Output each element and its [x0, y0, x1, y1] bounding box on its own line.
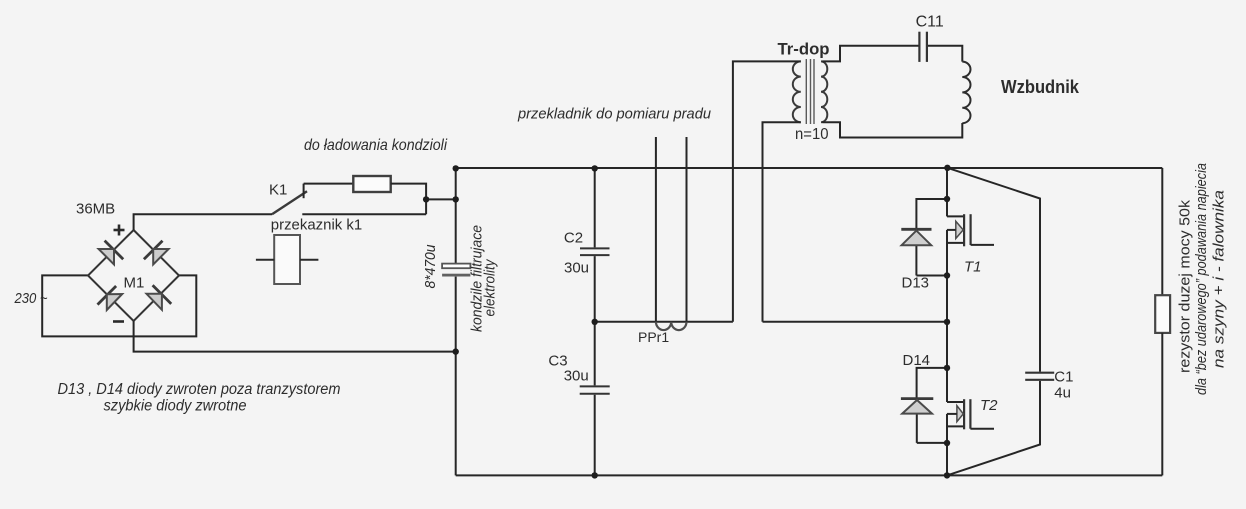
- svg-text:rezystor duzej mocy 50k: rezystor duzej mocy 50k: [1177, 199, 1194, 373]
- diode D14: [901, 368, 947, 443]
- diode D13: [901, 199, 947, 276]
- svg-text:elektrolity: elektrolity: [481, 258, 498, 316]
- current transformer PPr1 sense leads: [656, 137, 687, 322]
- svg-text:C11: C11: [916, 14, 944, 31]
- wire: right rail lower: [1161, 333, 1163, 476]
- transformer Tr-dop core: [806, 59, 814, 124]
- transformer Tr-dop secondary winding: [821, 61, 827, 122]
- wire: bridge minus output to bus: [134, 321, 456, 352]
- wire: C1 branch slant top: [947, 168, 1040, 372]
- inductor Wzbudnik work coil: [962, 62, 970, 124]
- svg-text:230 ~: 230 ~: [14, 290, 48, 307]
- transformer Tr-dop primary winding: [793, 61, 801, 122]
- wire: switch bypass lower path: [302, 213, 426, 215]
- capacitor 8*470u electrolytic: [442, 264, 470, 277]
- wire: 230V AC source leads: [42, 275, 196, 336]
- wire: inverter leg: [946, 168, 948, 476]
- wire: feed to bus: [426, 198, 456, 200]
- wire: resistor top path: [304, 183, 354, 185]
- svg-text:4u: 4u: [1054, 385, 1071, 402]
- transistor T2: [947, 399, 994, 429]
- svg-text:K1: K1: [269, 181, 287, 198]
- wire: bridge plus output to switch K1: [134, 214, 272, 230]
- svg-text:C2: C2: [564, 230, 583, 247]
- svg-text:przekladnik do pomiaru pradu: przekladnik do pomiaru pradu: [517, 106, 712, 123]
- svg-text:36MB: 36MB: [76, 201, 115, 218]
- svg-text:T2: T2: [980, 397, 998, 414]
- relay coil K1: [256, 235, 319, 284]
- svg-text:n=10: n=10: [795, 126, 829, 143]
- wire: C1 branch slant bottom: [947, 381, 1040, 476]
- wire: right rail upper: [1161, 168, 1163, 295]
- switch K1 fixed contact: [303, 184, 305, 199]
- wire: resistor right to bus: [391, 184, 426, 215]
- wire: mid horizontal left segment: [595, 321, 733, 323]
- svg-text:M1: M1: [124, 275, 145, 292]
- svg-text:szybkie diody zwrotne: szybkie diody zwrotne: [104, 398, 247, 415]
- plus sign: [114, 225, 125, 236]
- wire: top rail: [456, 167, 1163, 169]
- bridge rectifier M1 diamond: [88, 230, 179, 321]
- capacitor C3: [580, 386, 610, 393]
- svg-text:30u: 30u: [564, 368, 589, 385]
- wire: primary top lead: [733, 61, 801, 321]
- wire: C11 to coil top: [928, 46, 963, 62]
- svg-text:do ładowania kondzioli: do ładowania kondzioli: [304, 137, 447, 154]
- svg-text:PPr1: PPr1: [638, 329, 669, 345]
- diode M1 top-left: [99, 241, 124, 265]
- svg-text:D14: D14: [903, 352, 931, 369]
- diode M1 bottom-right: [147, 285, 172, 310]
- svg-text:przekaznik k1: przekaznik k1: [271, 217, 362, 234]
- wire: mid horizontal right segment: [763, 321, 948, 323]
- wire: C2 C3 branch vertical: [594, 168, 596, 475]
- node: junction dots: [423, 165, 951, 479]
- wire: primary bottom lead: [763, 122, 801, 322]
- current transformer PPr1 loops: [656, 322, 687, 330]
- svg-text:T1: T1: [964, 259, 982, 276]
- svg-text:Tr-dop: Tr-dop: [778, 40, 830, 59]
- transistor T1: [947, 214, 994, 246]
- svg-text:C1: C1: [1054, 368, 1073, 385]
- capacitor C1: [1025, 373, 1054, 380]
- capacitor C2: [580, 248, 610, 255]
- diode M1 bottom-left: [98, 286, 123, 310]
- svg-text:na szyny + i - falownika: na szyny + i - falownika: [1211, 190, 1228, 368]
- wire: bottom rail: [456, 474, 1163, 476]
- wire: left DC bus vertical: [455, 168, 457, 475]
- svg-text:Wzbudnik: Wzbudnik: [1001, 77, 1080, 97]
- diode M1 top-right: [144, 241, 169, 265]
- capacitor C11: [919, 32, 927, 62]
- resistor charging (do ladowania): [353, 176, 390, 192]
- switch K1 lever: [272, 191, 307, 214]
- wire: secondary top lead: [822, 46, 918, 62]
- svg-text:8*470u: 8*470u: [422, 244, 439, 289]
- resistor 50k soft-start: [1155, 295, 1170, 333]
- minus sign: [113, 320, 124, 323]
- svg-text:D13: D13: [902, 274, 930, 291]
- wire: secondary bottom lead: [822, 122, 962, 137]
- svg-text:D13 , D14 diody zwroten poza t: D13 , D14 diody zwroten poza tranzystore…: [58, 381, 341, 398]
- svg-text:dla “bez udarowego” podawania: dla “bez udarowego” podawania napiecia: [1193, 163, 1210, 395]
- svg-text:30u: 30u: [564, 260, 589, 277]
